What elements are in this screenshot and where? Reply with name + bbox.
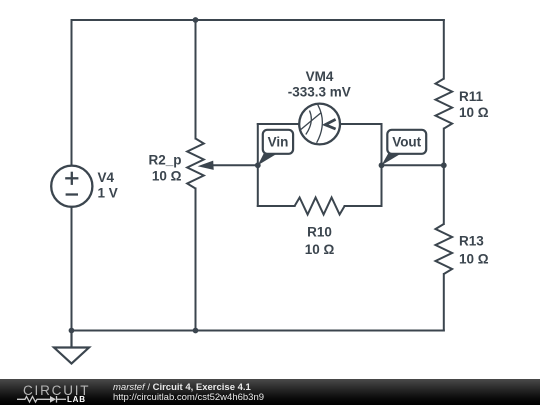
label R13 value: [459, 234, 489, 267]
resistor R11: [436, 79, 453, 129]
label VM4 value: [288, 69, 351, 99]
svg-text:Vin: Vin: [268, 135, 289, 150]
resistor R13: [436, 224, 453, 274]
wire middle branch lower: [195, 189, 197, 331]
node junction bottom middle: [193, 328, 199, 334]
wire loop top left segment: [258, 123, 299, 125]
wire right rail upper: [443, 20, 445, 79]
wire right rail lower: [443, 274, 445, 331]
potentiometer R2_p: [187, 139, 214, 189]
resistor R10: [295, 198, 345, 215]
node junction right rail: [441, 162, 447, 168]
svg-text:R2_p: R2_p: [148, 152, 181, 167]
wire loop left vertical: [257, 124, 259, 206]
svg-text:Vout: Vout: [392, 135, 421, 150]
wire potentiometer wiper lead: [212, 164, 258, 166]
node junction bottom left: [69, 328, 75, 334]
wire bottom rail: [72, 330, 444, 332]
wire top rail: [72, 19, 444, 21]
wire left rail upper: [71, 20, 73, 166]
svg-text:V4: V4: [98, 170, 115, 185]
label R2_p value: [148, 152, 181, 183]
svg-text:10 Ω: 10 Ω: [305, 242, 335, 257]
label V4 value: [98, 170, 118, 201]
svg-text:R10: R10: [307, 225, 332, 240]
CircuitLab logo: [0, 379, 100, 405]
ground: [54, 331, 89, 364]
svg-text:1 V: 1 V: [98, 186, 118, 201]
svg-text:10 Ω: 10 Ω: [459, 251, 489, 266]
svg-text:10 Ω: 10 Ω: [152, 169, 182, 184]
voltmeter VM4: [299, 104, 340, 145]
wire Vout node to right rail: [382, 164, 444, 166]
wire loop top right segment: [340, 123, 382, 125]
label R11 value: [459, 89, 489, 120]
node Vout junction: [379, 162, 385, 168]
svg-text:VM4: VM4: [306, 69, 334, 84]
wire middle branch upper: [195, 20, 197, 139]
footer bar: [0, 379, 540, 405]
node Vin junction: [255, 162, 261, 168]
svg-text:R11: R11: [459, 89, 484, 104]
flag Vout: [382, 130, 427, 166]
wire loop bottom right segment: [345, 205, 382, 207]
svg-text:10 Ω: 10 Ω: [459, 105, 489, 120]
wire right rail middle: [443, 129, 445, 224]
label R10 value: [305, 225, 335, 258]
node junction top: [193, 17, 199, 23]
voltage source V4: [51, 166, 92, 207]
flag Vin: [258, 130, 293, 166]
svg-text:-333.3 mV: -333.3 mV: [288, 85, 351, 100]
svg-text:LAB: LAB: [67, 395, 86, 404]
wire loop bottom left segment: [258, 205, 295, 207]
wire left rail lower: [71, 207, 73, 331]
svg-text:R13: R13: [459, 234, 484, 249]
wire loop right vertical: [381, 124, 383, 206]
